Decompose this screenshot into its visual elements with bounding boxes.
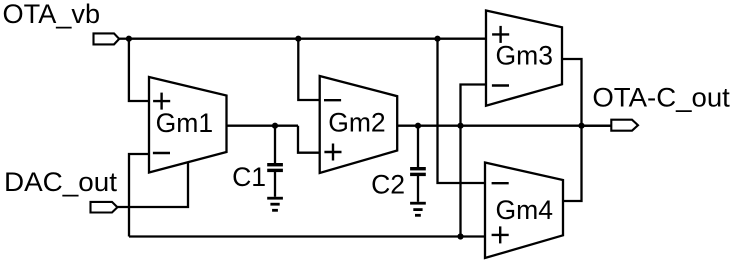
node junction C2 tap: [415, 123, 421, 129]
wire feedback vertical mid rail to bottom rail: [459, 126, 461, 237]
Gm3 body: [486, 11, 562, 106]
wire top rail segment 1: [129, 38, 298, 40]
wire Gm4 output up to mid rail: [563, 126, 582, 201]
wire Gm3 - input from feedback vertical: [461, 85, 487, 126]
C1 top plate: [267, 163, 283, 166]
ground (below C2): [410, 202, 426, 217]
input port OTA_vb: [94, 33, 120, 44]
wire DAC_out to Gm1 bottom edge: [117, 162, 188, 207]
Gm2 body: [320, 76, 398, 173]
node junction on bottom rail: [457, 233, 463, 239]
wire mid rail to output port: [582, 125, 612, 127]
input port DAC_out: [91, 202, 118, 213]
OTA op-amp Gm3: [486, 11, 562, 106]
wire OTA_vb port tip to junction: [119, 38, 129, 40]
wire drop to Gm4 - input: [438, 39, 486, 183]
wire Gm1 output: [227, 125, 299, 127]
capacitor C2: [410, 126, 426, 202]
node junction on top rail at Gm2 drop: [295, 36, 301, 42]
svg-text:Gm3: Gm3: [496, 41, 554, 71]
Gm1 body: [149, 77, 227, 173]
ground (below C1): [267, 197, 283, 212]
C2 bottom plate: [410, 173, 426, 176]
OTA op-amp Gm4: [485, 163, 563, 259]
svg-text:OTA_vb: OTA_vb: [3, 0, 101, 29]
OTA op-amp Gm1: [149, 77, 227, 173]
wire bottom rail: [129, 235, 485, 237]
Gm4 - input pin mark: [492, 182, 509, 184]
node junction on OTA_vb rail at Gm1 drop: [126, 36, 132, 42]
Gm1 + input pin mark: [153, 100, 170, 102]
svg-text:Gm2: Gm2: [328, 108, 386, 138]
svg-text:DAC_out: DAC_out: [4, 167, 118, 197]
svg-text:Gm1: Gm1: [156, 108, 214, 138]
wire drop to Gm1 + input: [129, 39, 149, 101]
Gm4 body: [485, 163, 563, 259]
wire Gm3 output down to mid rail: [562, 59, 582, 126]
C1 bottom lead: [274, 172, 276, 197]
node junction feedback tap on mid rail: [457, 123, 463, 129]
Gm3 - input pin mark: [492, 84, 509, 86]
wire bottom rail riser to Gm1 - input: [129, 154, 149, 237]
C1 top lead: [274, 126, 276, 164]
node junction Gm3 Gm4 outputs on mid rail: [578, 123, 584, 129]
svg-text:C1: C1: [232, 162, 266, 192]
C1 bottom plate: [267, 169, 283, 172]
capacitor C1: [267, 126, 283, 197]
svg-text:OTA-C_out: OTA-C_out: [592, 82, 730, 112]
OTA op-amp Gm2: [320, 76, 398, 173]
wire Gm2 output to output port (mid rail): [397, 125, 611, 127]
Gm3 + input pin mark: [492, 33, 509, 35]
wire top rail segment 2: [298, 38, 437, 40]
svg-text:C2: C2: [371, 169, 405, 199]
Gm4 + input pin mark: [492, 234, 509, 236]
node junction on top rail at Gm4 drop: [434, 36, 440, 42]
C2 top plate: [410, 167, 426, 170]
wire top rail segment 3 to Gm3 + input: [438, 38, 487, 40]
Gm2 - input pin mark: [324, 99, 341, 101]
output port OTA-C_out: [611, 120, 638, 131]
C2 top lead: [417, 126, 419, 167]
wire Gm1 output down to Gm2 + input: [298, 126, 320, 153]
svg-text:Gm4: Gm4: [496, 195, 554, 225]
Gm1 - input pin mark: [153, 152, 170, 154]
Gm2 + input pin mark: [324, 151, 341, 153]
C2 bottom lead: [417, 176, 419, 202]
node junction C1 tap: [272, 123, 278, 129]
wire drop to Gm2 - input: [298, 39, 319, 100]
